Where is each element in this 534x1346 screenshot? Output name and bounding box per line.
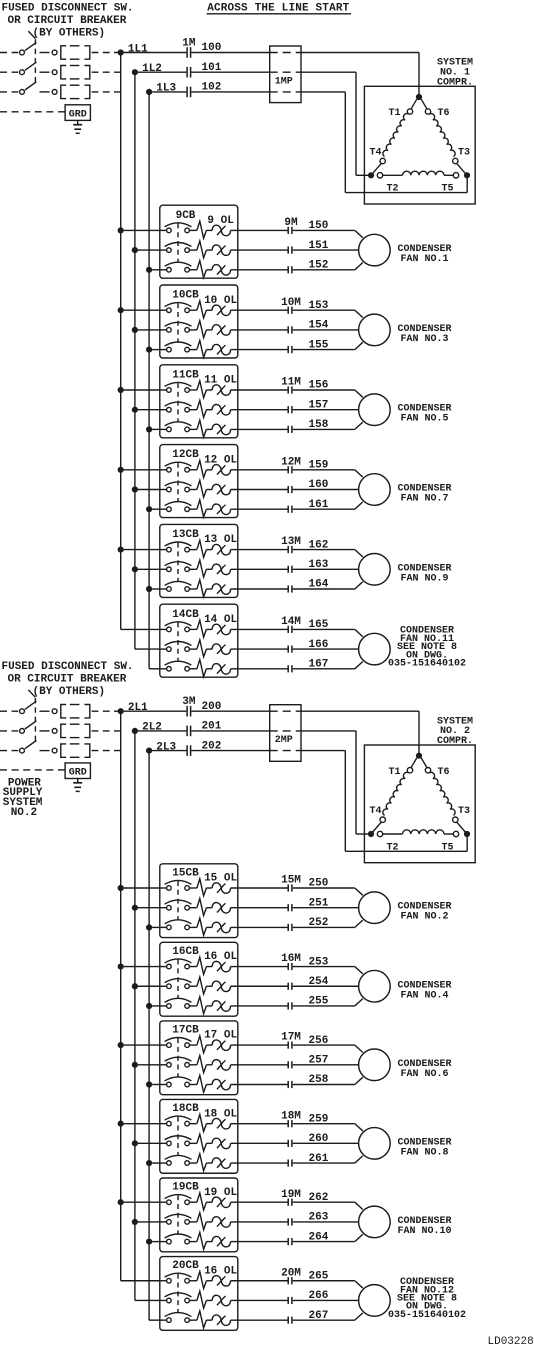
circuit breaker 13CB / overload 13 OL enclosure xyxy=(160,524,238,597)
wire from 13 OL to contact 13M pole 1 xyxy=(231,549,288,551)
breaker 19CB pole 2 xyxy=(160,1221,167,1223)
compressor motor box system 1 xyxy=(364,86,475,204)
svg-text:17CB: 17CB xyxy=(172,1025,199,1037)
breaker 10CB pole 3 xyxy=(160,349,167,351)
contactor contact 1M pole 1 xyxy=(186,47,188,58)
condenser fan motor (FAN NO.6) xyxy=(359,1049,391,1081)
overload 15 OL heater 2 xyxy=(189,907,197,909)
svg-text:FAN NO.2: FAN NO.2 xyxy=(400,912,448,923)
contactor contact 13M pole 2 xyxy=(287,566,289,573)
bus 1 phase A vertical xyxy=(120,53,122,630)
node - tap on bus 2 xyxy=(132,983,138,989)
disconnect switch pole S2-C xyxy=(20,748,25,753)
wire - bus elbow into 20CB pole 1 xyxy=(121,1280,160,1282)
overload 12 OL heater 3 xyxy=(189,508,197,510)
motor protector 2MP xyxy=(270,705,301,762)
breaker 17CB pole 3 xyxy=(160,1084,167,1086)
node - tap on bus 1 xyxy=(118,227,124,233)
wire - dashed lead to GRD1 xyxy=(0,111,65,113)
contactor contact 20M pole 2 xyxy=(287,1297,289,1304)
bus 2 phase B vertical xyxy=(134,731,136,1301)
breaker 9CB pole 2 xyxy=(160,249,167,251)
bus 2 phase A vertical xyxy=(120,711,122,1281)
svg-text:(BY OTHERS): (BY OTHERS) xyxy=(33,28,106,40)
node 1L3 xyxy=(146,89,152,95)
motor protector 1MP xyxy=(270,46,301,103)
switch S2 mechanical tie (dashed) xyxy=(34,698,36,742)
svg-text:FUSED DISCONNECT SW.: FUSED DISCONNECT SW. xyxy=(2,3,134,15)
node - tap on bus 1 xyxy=(118,387,124,393)
breaker 15CB pole 1 xyxy=(160,887,167,889)
overload 10 OL heater 1 xyxy=(189,309,197,311)
overload 9 OL heater 2 xyxy=(189,249,197,251)
svg-text:2L1: 2L1 xyxy=(128,702,148,714)
wire - tap to 15CB pole 3 xyxy=(152,926,160,928)
wire - tap to 12CB pole 1 xyxy=(124,469,160,471)
node 1L2 xyxy=(132,69,138,75)
motor winding T2-T5 (bottom) xyxy=(371,163,381,175)
contactor contact 12M pole 1 xyxy=(287,466,289,473)
wire from 19 OL to contact 19M pole 2 xyxy=(231,1221,288,1223)
svg-text:FAN NO.3: FAN NO.3 xyxy=(400,334,448,345)
overload 12 OL heater 2 xyxy=(189,489,197,491)
breaker 19CB pole 3 xyxy=(160,1241,167,1243)
wire - tap to 13CB pole 1 xyxy=(124,549,160,551)
wire - tap to 19CB pole 1 xyxy=(124,1201,160,1203)
wire - tap to 19CB pole 2 xyxy=(138,1221,160,1223)
wire from 16 OL to contact 16M pole 3 xyxy=(231,1005,288,1007)
wire 2L1 to contact xyxy=(124,710,187,712)
wire - dashed supply lead S1-C xyxy=(0,91,18,93)
svg-text:18M: 18M xyxy=(281,1110,301,1122)
circuit breaker 10CB / overload 10 OL enclosure xyxy=(160,285,238,358)
circuit breaker 12CB / overload 12 OL enclosure xyxy=(160,445,238,518)
wire from 9 OL to contact 9M pole 1 xyxy=(231,229,288,231)
wire - tap to 10CB pole 2 xyxy=(138,329,160,331)
svg-text:FAN NO.1: FAN NO.1 xyxy=(400,254,448,265)
node - tap on bus 3 xyxy=(146,1081,152,1087)
contactor contact 12M pole 2 xyxy=(287,486,289,493)
breaker 14CB pole 2 xyxy=(160,648,167,650)
overload 13 OL heater 2 xyxy=(189,568,197,570)
node - motor bottom right xyxy=(464,172,470,178)
overload 17 OL heater 3 xyxy=(189,1084,197,1086)
contactor contact 11M pole 2 xyxy=(287,406,289,413)
wire from 15 OL to contact 15M pole 1 xyxy=(231,887,288,889)
wire from 15 OL to contact 15M pole 2 xyxy=(231,907,288,909)
wire - dashed supply lead S1-B xyxy=(0,71,18,73)
wire - tap to 16CB pole 3 xyxy=(152,1005,160,1007)
contactor contact 1M pole 2 xyxy=(186,67,188,78)
condenser fan motor (FAN NO.3) xyxy=(359,314,391,346)
svg-text:ACROSS THE LINE START: ACROSS THE LINE START xyxy=(207,2,349,14)
contactor contact 3M pole 2 xyxy=(186,726,188,737)
wire - tap to 12CB pole 2 xyxy=(138,489,160,491)
breaker 20CB pole 2 xyxy=(160,1299,167,1301)
overload 10 OL heater 3 xyxy=(189,349,197,351)
contactor contact 10M pole 3 xyxy=(287,346,289,353)
svg-text:12 OL: 12 OL xyxy=(204,454,237,466)
overload 11 OL heater 1 xyxy=(189,389,197,391)
wire - bus elbow into 20CB pole 2 xyxy=(135,1299,160,1301)
condenser fan motor (FAN NO.10) xyxy=(359,1206,391,1238)
ground symbol GRD1 xyxy=(77,120,79,124)
contactor contact 13M pole 3 xyxy=(287,585,289,592)
svg-text:FAN NO.10: FAN NO.10 xyxy=(397,1226,451,1237)
svg-text:10CB: 10CB xyxy=(172,290,199,302)
wire - dashed lead to GRD2 xyxy=(0,769,65,771)
breaker 13CB pole 2 xyxy=(160,568,167,570)
fuse S2-B xyxy=(61,724,66,737)
svg-text:9 OL: 9 OL xyxy=(207,215,234,227)
svg-text:20CB: 20CB xyxy=(172,1260,199,1272)
wire - tap to 9CB pole 2 xyxy=(138,249,160,251)
wire from 12 OL to contact 12M pole 2 xyxy=(231,489,288,491)
wire - bus elbow into 14CB pole 3 xyxy=(149,668,160,670)
contactor contact 10M pole 2 xyxy=(287,326,289,333)
node - tap on bus 2 xyxy=(132,566,138,572)
breaker 16CB pole 2 xyxy=(160,985,167,987)
svg-text:1L3: 1L3 xyxy=(156,83,176,95)
svg-text:OR CIRCUIT BREAKER: OR CIRCUIT BREAKER xyxy=(8,673,127,685)
breaker 10CB pole 1 xyxy=(160,309,167,311)
wire from 12 OL to contact 12M pole 3 xyxy=(231,508,288,510)
wire - tap to 18CB pole 2 xyxy=(138,1142,160,1144)
node - tap on bus 1 xyxy=(118,963,124,969)
node - tap on bus 2 xyxy=(132,327,138,333)
svg-text:20M: 20M xyxy=(281,1267,301,1279)
svg-text:13CB: 13CB xyxy=(172,529,199,541)
svg-text:T6: T6 xyxy=(437,767,449,778)
overload 14 OL heater 3 xyxy=(189,668,197,670)
node - tap on bus 2 xyxy=(132,1140,138,1146)
switch S2 operating handle xyxy=(28,690,35,698)
wire - tap to 13CB pole 2 xyxy=(138,568,160,570)
overload 16 OL heater 3 xyxy=(189,1319,197,1321)
svg-text:11CB: 11CB xyxy=(172,369,199,381)
contactor contact 3M pole 1 xyxy=(186,706,188,717)
svg-text:1MP: 1MP xyxy=(275,77,293,88)
overload 18 OL heater 1 xyxy=(189,1123,197,1125)
wire - tap to 13CB pole 3 xyxy=(152,588,160,590)
node - tap on bus 3 xyxy=(146,506,152,512)
svg-text:FAN NO.4: FAN NO.4 xyxy=(400,990,448,1001)
contactor contact 19M pole 1 xyxy=(287,1199,289,1206)
wire - phase C drop around motor to bottom-right xyxy=(344,751,346,852)
breaker 20CB mechanical tie (dashed) xyxy=(177,1274,179,1313)
contactor contact 9M pole 3 xyxy=(287,266,289,273)
svg-text:LD03228: LD03228 xyxy=(488,1336,534,1346)
wire 1L2 to contact xyxy=(138,71,187,73)
breaker 14CB pole 1 xyxy=(160,628,167,630)
svg-text:13 OL: 13 OL xyxy=(204,534,237,546)
contactor contact 18M pole 2 xyxy=(287,1140,289,1147)
wire from 9 OL to contact 9M pole 3 xyxy=(231,269,288,271)
svg-text:18CB: 18CB xyxy=(172,1103,199,1115)
contactor contact 18M pole 1 xyxy=(287,1120,289,1127)
wire from 13 OL to contact 13M pole 2 xyxy=(231,568,288,570)
contactor contact 19M pole 3 xyxy=(287,1238,289,1245)
breaker 16CB mechanical tie (dashed) xyxy=(177,960,179,999)
breaker 11CB mechanical tie (dashed) xyxy=(177,383,179,422)
svg-text:T6: T6 xyxy=(437,108,449,119)
wire - tap to 9CB pole 1 xyxy=(124,229,160,231)
svg-text:NO.2: NO.2 xyxy=(11,807,37,819)
svg-text:14M: 14M xyxy=(281,616,301,628)
node - tap on bus 3 xyxy=(146,1003,152,1009)
condenser fan motor (FAN NO.4) xyxy=(359,970,391,1002)
ground symbol GRD2 xyxy=(77,779,79,783)
breaker 16CB pole 1 xyxy=(160,966,167,968)
contactor contact 15M pole 3 xyxy=(287,924,289,931)
contactor contact 10M pole 1 xyxy=(287,307,289,314)
wire from 16 OL to contact 20M pole 1 xyxy=(231,1280,288,1282)
wire from 18 OL to contact 18M pole 1 xyxy=(231,1123,288,1125)
svg-text:COMPR.: COMPR. xyxy=(437,77,473,88)
svg-text:2L2: 2L2 xyxy=(142,722,162,734)
motor winding T1-T4 (left) xyxy=(411,758,417,768)
svg-text:19CB: 19CB xyxy=(172,1182,199,1194)
circuit breaker 14CB / overload 14 OL enclosure xyxy=(160,604,238,677)
ground box GRD2 xyxy=(65,763,90,779)
wire - tap to 12CB pole 3 xyxy=(152,508,160,510)
breaker 17CB mechanical tie (dashed) xyxy=(177,1038,179,1077)
contactor contact 19M pole 2 xyxy=(287,1218,289,1225)
wire - dashed supply lead S1-A xyxy=(0,52,18,54)
wire from 10 OL to contact 10M pole 1 xyxy=(231,309,288,311)
wire from 14 OL to contact 14M pole 1 xyxy=(231,628,288,630)
wire - tap to 16CB pole 1 xyxy=(124,966,160,968)
wire - tap to 18CB pole 3 xyxy=(152,1162,160,1164)
svg-text:035-151640102: 035-151640102 xyxy=(388,659,466,670)
svg-text:12M: 12M xyxy=(281,456,301,468)
condenser fan motor (FAN NO.5) xyxy=(359,394,391,426)
breaker 9CB mechanical tie (dashed) xyxy=(177,223,179,262)
node - tap on bus 2 xyxy=(132,1062,138,1068)
svg-text:15M: 15M xyxy=(281,875,301,887)
node - tap on bus 1 xyxy=(118,1121,124,1127)
wire - tap to 11CB pole 1 xyxy=(124,389,160,391)
node - tap on bus 1 xyxy=(118,467,124,473)
node - tap on bus 2 xyxy=(132,407,138,413)
overload 18 OL heater 2 xyxy=(189,1142,197,1144)
wire - bus elbow into 14CB pole 1 xyxy=(121,628,160,630)
breaker 12CB mechanical tie (dashed) xyxy=(177,463,179,502)
wire 1L3 to contact xyxy=(152,91,186,93)
svg-text:COMPR.: COMPR. xyxy=(437,736,473,747)
breaker 18CB pole 2 xyxy=(160,1142,167,1144)
svg-text:T5: T5 xyxy=(441,184,453,195)
wire from 13 OL to contact 13M pole 3 xyxy=(231,588,288,590)
overload 16 OL heater 2 xyxy=(189,985,197,987)
svg-text:11M: 11M xyxy=(281,377,301,389)
condenser fan motor (FAN NO.7) xyxy=(359,474,391,506)
svg-text:2L3: 2L3 xyxy=(156,741,176,753)
wire - tap to 17CB pole 3 xyxy=(152,1084,160,1086)
condenser fan motor (FAN NO.8) xyxy=(359,1128,391,1160)
breaker 18CB pole 3 xyxy=(160,1162,167,1164)
condenser fan motor (FAN NO.1) xyxy=(359,234,391,266)
wire from 19 OL to contact 19M pole 1 xyxy=(231,1201,288,1203)
svg-text:FAN NO.6: FAN NO.6 xyxy=(400,1069,448,1080)
breaker 10CB mechanical tie (dashed) xyxy=(177,303,179,342)
breaker 12CB pole 1 xyxy=(160,469,167,471)
contactor contact 16M pole 3 xyxy=(287,1002,289,1009)
svg-text:FAN NO.8: FAN NO.8 xyxy=(400,1147,448,1158)
node - motor bottom left xyxy=(368,831,374,837)
wire from 15 OL to contact 15M pole 3 xyxy=(231,926,288,928)
wire - tap to 10CB pole 1 xyxy=(124,309,160,311)
overload 19 OL heater 2 xyxy=(189,1221,197,1223)
breaker 17CB pole 1 xyxy=(160,1044,167,1046)
contactor contact 15M pole 1 xyxy=(287,884,289,891)
svg-text:(BY OTHERS): (BY OTHERS) xyxy=(33,686,106,698)
contactor contact 17M pole 3 xyxy=(287,1081,289,1088)
wire from 19 OL to contact 19M pole 3 xyxy=(231,1241,288,1243)
svg-text:GRD: GRD xyxy=(69,768,87,779)
breaker 13CB pole 1 xyxy=(160,549,167,551)
svg-text:FAN NO.5: FAN NO.5 xyxy=(400,414,448,425)
svg-text:14CB: 14CB xyxy=(172,609,199,621)
wire from 17 OL to contact 17M pole 1 xyxy=(231,1044,288,1046)
wire - tap to 15CB pole 2 xyxy=(138,907,160,909)
breaker 15CB mechanical tie (dashed) xyxy=(177,881,179,920)
overload 9 OL heater 3 xyxy=(189,269,197,271)
wire - tap to 17CB pole 2 xyxy=(138,1064,160,1066)
wire - dashed lead from fuse S1-C to bus xyxy=(92,91,121,93)
wire - dashed lead from fuse S1-B to bus xyxy=(92,71,121,73)
wire - phase C drop around motor to bottom-right xyxy=(344,92,346,193)
switch S1 mechanical tie (dashed) xyxy=(34,39,36,83)
overload 11 OL heater 2 xyxy=(189,409,197,411)
svg-text:11 OL: 11 OL xyxy=(204,375,237,387)
contactor contact 20M pole 3 xyxy=(287,1317,289,1324)
node - tap on bus 3 xyxy=(146,1160,152,1166)
svg-text:T1: T1 xyxy=(388,108,400,119)
node - motor apex xyxy=(416,94,422,100)
node - tap on bus 3 xyxy=(146,426,152,432)
overload 14 OL heater 2 xyxy=(189,648,197,650)
wire from 17 OL to contact 17M pole 2 xyxy=(231,1064,288,1066)
node - tap on bus 2 xyxy=(132,486,138,492)
svg-text:T3: T3 xyxy=(458,148,470,159)
svg-text:16CB: 16CB xyxy=(172,946,199,958)
disconnect switch pole S2-B xyxy=(20,729,25,734)
node 2L2 xyxy=(132,728,138,734)
contactor contact 18M pole 3 xyxy=(287,1159,289,1166)
node - tap on bus 2 xyxy=(132,1219,138,1225)
svg-text:3M: 3M xyxy=(182,696,196,708)
svg-text:10M: 10M xyxy=(281,297,301,309)
contactor contact 1M pole 3 xyxy=(186,87,188,98)
wire - dashed supply lead S2-C xyxy=(0,750,18,752)
overload 18 OL heater 3 xyxy=(189,1162,197,1164)
fuse S1-A xyxy=(61,46,66,59)
svg-text:13M: 13M xyxy=(281,536,301,548)
contactor contact 20M pole 1 xyxy=(287,1277,289,1284)
contactor contact 9M pole 2 xyxy=(287,247,289,254)
overload 9 OL heater 1 xyxy=(189,229,197,231)
breaker 9CB pole 3 xyxy=(160,269,167,271)
wire 2L3 to contact xyxy=(152,750,186,752)
switch S1 operating handle xyxy=(28,31,35,38)
bus 1 phase B vertical xyxy=(134,72,136,649)
circuit breaker 9CB / overload 9 OL enclosure xyxy=(160,205,238,278)
wire from 16 OL to contact 16M pole 2 xyxy=(231,985,288,987)
motor winding T6-T3 (right) xyxy=(421,758,427,768)
disconnect switch pole S1-A xyxy=(20,50,25,55)
node - tap on bus 1 xyxy=(118,885,124,891)
motor winding T1-T4 (left) xyxy=(411,99,417,109)
wire - tap to 18CB pole 1 xyxy=(124,1123,160,1125)
contactor contact 13M pole 1 xyxy=(287,546,289,553)
svg-text:2MP: 2MP xyxy=(275,735,293,746)
overload 17 OL heater 2 xyxy=(189,1064,197,1066)
node - tap on bus 3 xyxy=(146,347,152,353)
wire - bus elbow into 20CB pole 3 xyxy=(149,1319,160,1321)
wire from 16 OL to contact 16M pole 1 xyxy=(231,966,288,968)
svg-text:15CB: 15CB xyxy=(172,867,199,879)
wire from 9 OL to contact 9M pole 2 xyxy=(231,249,288,251)
node - tap on bus 2 xyxy=(132,247,138,253)
wire - dashed lead from fuse S1-A to bus xyxy=(92,52,121,54)
contactor contact 17M pole 1 xyxy=(287,1042,289,1049)
contactor contact 14M pole 2 xyxy=(287,646,289,653)
breaker 13CB mechanical tie (dashed) xyxy=(177,543,179,582)
breaker 13CB pole 3 xyxy=(160,588,167,590)
wire from 11 OL to contact 11M pole 3 xyxy=(231,428,288,430)
breaker 18CB pole 1 xyxy=(160,1123,167,1125)
svg-text:FAN NO.9: FAN NO.9 xyxy=(400,573,448,584)
svg-text:FAN NO.7: FAN NO.7 xyxy=(400,494,448,505)
wire - phase B drop to motor bottom-left xyxy=(355,731,357,834)
bus 2 phase C vertical xyxy=(148,751,150,1321)
circuit breaker 19CB / overload 19 OL enclosure xyxy=(160,1178,238,1252)
condenser fan motor (FAN NO.2) xyxy=(359,892,391,924)
breaker 19CB mechanical tie (dashed) xyxy=(177,1195,179,1234)
fuse S2-C xyxy=(61,744,66,757)
overload 19 OL heater 1 xyxy=(189,1201,197,1203)
svg-text:T4: T4 xyxy=(369,148,381,159)
wire 1L1 to contact xyxy=(124,52,187,54)
contactor contact 12M pole 3 xyxy=(287,506,289,513)
node - motor apex xyxy=(416,753,422,759)
svg-text:T2: T2 xyxy=(386,184,398,195)
circuit breaker 20CB / overload 16 OL enclosure xyxy=(160,1257,238,1331)
breaker 14CB mechanical tie (dashed) xyxy=(177,622,179,661)
wire from 16 OL to contact 20M pole 2 xyxy=(231,1299,288,1301)
wire - bus elbow into 14CB pole 2 xyxy=(135,648,160,650)
breaker 11CB pole 3 xyxy=(160,428,167,430)
breaker 16CB pole 3 xyxy=(160,1005,167,1007)
svg-text:9CB: 9CB xyxy=(176,210,196,222)
contactor contact 16M pole 2 xyxy=(287,983,289,990)
wire - tap to 11CB pole 2 xyxy=(138,409,160,411)
wire - phase A drop to motor apex xyxy=(418,53,420,98)
wire - tap to 17CB pole 1 xyxy=(124,1044,160,1046)
breaker 11CB pole 2 xyxy=(160,409,167,411)
svg-text:9M: 9M xyxy=(284,217,298,229)
circuit breaker 16CB / overload 16 OL enclosure xyxy=(160,942,238,1016)
circuit breaker 15CB / overload 15 OL enclosure xyxy=(160,864,238,938)
wire - tap to 16CB pole 2 xyxy=(138,985,160,987)
svg-text:16M: 16M xyxy=(281,953,301,965)
condenser fan motor (FAN NO.9) xyxy=(359,554,391,586)
wire - phase A drop to motor apex xyxy=(418,711,420,756)
contactor contact 11M pole 3 xyxy=(287,426,289,433)
contactor contact 17M pole 2 xyxy=(287,1061,289,1068)
wire - phase B drop to motor bottom-left xyxy=(355,72,357,175)
